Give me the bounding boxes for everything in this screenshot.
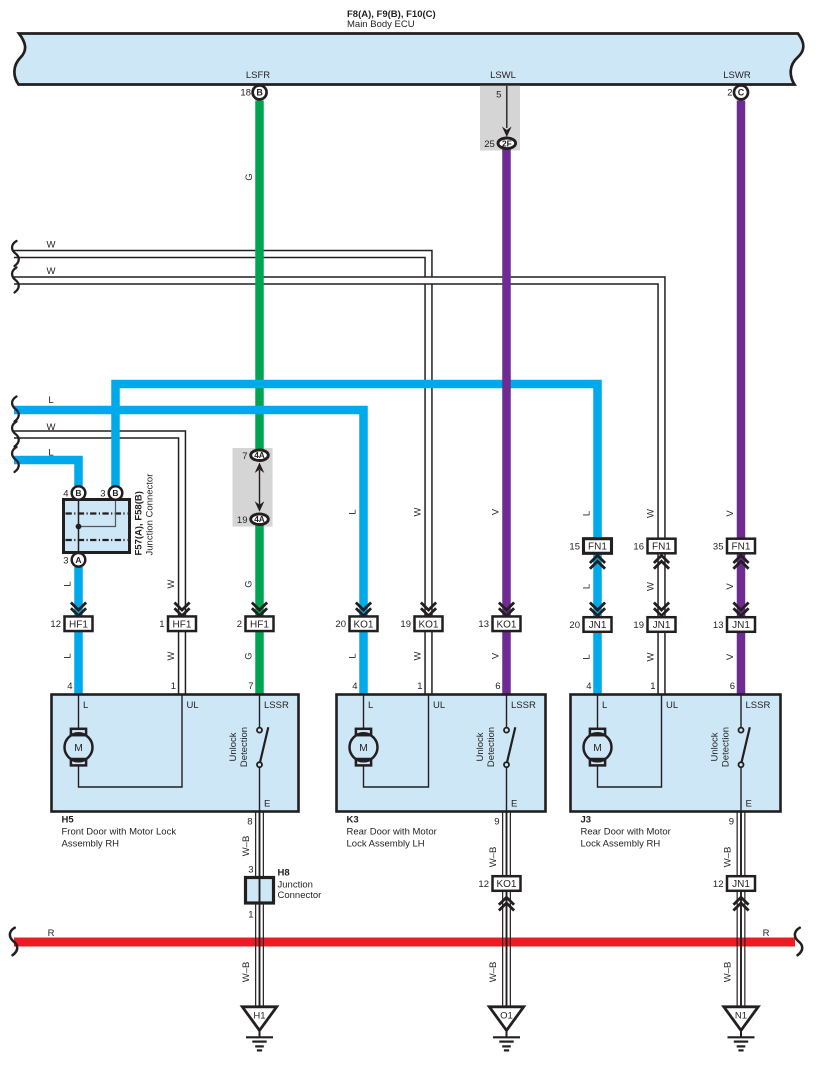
- svg-text:E: E: [511, 799, 517, 810]
- svg-text:9: 9: [729, 817, 734, 828]
- svg-text:3: 3: [63, 555, 68, 566]
- svg-text:4A: 4A: [254, 514, 265, 524]
- svg-text:20: 20: [335, 619, 346, 630]
- svg-text:3: 3: [248, 865, 253, 876]
- svg-text:R: R: [48, 928, 55, 939]
- svg-text:W: W: [166, 579, 177, 588]
- svg-text:F57(A), F58(B): F57(A), F58(B): [134, 491, 145, 555]
- svg-text:V: V: [491, 652, 502, 659]
- svg-text:M: M: [359, 743, 368, 754]
- svg-text:L: L: [63, 653, 74, 658]
- svg-text:19: 19: [633, 620, 644, 631]
- svg-text:O1: O1: [500, 1011, 513, 1022]
- svg-text:E: E: [746, 799, 752, 810]
- svg-text:Detection: Detection: [486, 727, 497, 767]
- svg-text:9: 9: [494, 817, 499, 828]
- svg-text:2: 2: [237, 619, 242, 630]
- svg-text:FN1: FN1: [652, 542, 671, 553]
- svg-text:Unlock: Unlock: [710, 732, 721, 761]
- svg-text:UL: UL: [433, 700, 445, 711]
- svg-text:KO1: KO1: [496, 879, 516, 890]
- svg-text:L: L: [48, 395, 53, 406]
- svg-text:C: C: [738, 88, 745, 98]
- svg-text:W: W: [413, 507, 424, 516]
- svg-text:UL: UL: [666, 700, 678, 711]
- svg-text:H5: H5: [62, 815, 75, 826]
- svg-text:L: L: [83, 700, 88, 711]
- svg-text:15: 15: [569, 541, 580, 552]
- svg-text:V: V: [725, 510, 736, 517]
- svg-text:Main Body ECU: Main Body ECU: [347, 19, 415, 30]
- svg-text:W–B: W–B: [488, 962, 499, 983]
- svg-text:L: L: [63, 581, 74, 586]
- svg-text:Assembly RH: Assembly RH: [62, 839, 120, 850]
- svg-text:Lock Assembly RH: Lock Assembly RH: [581, 839, 661, 850]
- svg-text:A: A: [75, 555, 81, 565]
- svg-text:Front Door with Motor Lock: Front Door with Motor Lock: [62, 827, 177, 838]
- svg-text:Junction: Junction: [278, 880, 313, 891]
- svg-text:W–B: W–B: [488, 847, 499, 868]
- svg-text:HF1: HF1: [69, 619, 88, 630]
- svg-text:7: 7: [248, 681, 253, 692]
- svg-text:L: L: [582, 584, 593, 589]
- svg-text:19: 19: [237, 515, 248, 526]
- svg-text:W: W: [47, 422, 56, 433]
- svg-text:L: L: [48, 448, 53, 459]
- svg-text:1: 1: [171, 681, 176, 692]
- svg-text:FN1: FN1: [588, 542, 607, 553]
- svg-text:JN1: JN1: [732, 620, 750, 631]
- svg-text:H1: H1: [253, 1011, 265, 1022]
- svg-text:W–B: W–B: [241, 836, 252, 857]
- svg-text:L: L: [582, 654, 593, 659]
- svg-text:1: 1: [417, 681, 422, 692]
- svg-text:KO1: KO1: [353, 619, 373, 630]
- svg-text:W: W: [166, 651, 177, 660]
- svg-text:HF1: HF1: [250, 619, 269, 630]
- svg-text:V: V: [725, 653, 736, 660]
- svg-text:JN1: JN1: [732, 879, 750, 890]
- svg-text:W–B: W–B: [241, 962, 252, 983]
- svg-text:LSFR: LSFR: [246, 70, 270, 81]
- svg-text:20: 20: [569, 620, 580, 631]
- svg-text:M: M: [593, 743, 602, 754]
- svg-text:8: 8: [247, 817, 252, 828]
- svg-text:G: G: [244, 652, 255, 659]
- svg-text:7: 7: [242, 451, 247, 462]
- svg-text:W–B: W–B: [723, 847, 734, 868]
- svg-text:W: W: [413, 651, 424, 660]
- svg-text:Rear Door with Motor: Rear Door with Motor: [581, 827, 671, 838]
- svg-text:Lock Assembly LH: Lock Assembly LH: [347, 839, 425, 850]
- svg-text:Rear Door with Motor: Rear Door with Motor: [347, 827, 437, 838]
- svg-text:LSWL: LSWL: [490, 70, 516, 81]
- svg-text:V: V: [491, 508, 502, 515]
- svg-text:W: W: [646, 652, 657, 661]
- svg-text:6: 6: [495, 681, 500, 692]
- svg-text:K3: K3: [347, 815, 359, 826]
- svg-text:G: G: [244, 173, 255, 180]
- svg-text:1: 1: [650, 681, 655, 692]
- svg-text:JN1: JN1: [653, 620, 671, 631]
- svg-text:13: 13: [713, 620, 724, 631]
- svg-text:L: L: [348, 653, 359, 658]
- svg-text:Junction Connector: Junction Connector: [145, 474, 156, 556]
- svg-text:4A: 4A: [254, 450, 265, 460]
- svg-text:JN1: JN1: [589, 620, 607, 631]
- svg-text:Unlock: Unlock: [228, 732, 239, 761]
- svg-text:4: 4: [352, 681, 357, 692]
- svg-text:KO1: KO1: [496, 619, 516, 630]
- svg-text:Unlock: Unlock: [475, 732, 486, 761]
- svg-text:W: W: [646, 509, 657, 518]
- svg-text:Connector: Connector: [278, 890, 322, 901]
- svg-text:1: 1: [248, 910, 253, 921]
- svg-text:19: 19: [400, 619, 411, 630]
- svg-text:LSSR: LSSR: [511, 700, 536, 711]
- svg-text:13: 13: [478, 619, 489, 630]
- svg-text:W: W: [646, 582, 657, 591]
- svg-text:R: R: [763, 928, 770, 939]
- svg-text:2: 2: [727, 88, 732, 99]
- svg-text:35: 35: [713, 541, 724, 552]
- svg-text:V: V: [725, 583, 736, 590]
- svg-text:5: 5: [496, 90, 501, 101]
- svg-text:L: L: [348, 509, 359, 514]
- svg-text:LSSR: LSSR: [746, 700, 771, 711]
- svg-text:L: L: [368, 700, 373, 711]
- svg-text:1: 1: [159, 619, 164, 630]
- svg-text:4: 4: [63, 489, 68, 500]
- svg-text:B: B: [75, 488, 81, 498]
- svg-text:16: 16: [633, 541, 644, 552]
- svg-text:KO1: KO1: [418, 619, 438, 630]
- svg-text:W–B: W–B: [723, 962, 734, 983]
- svg-text:M: M: [74, 743, 83, 754]
- svg-text:W: W: [47, 266, 56, 277]
- svg-text:2F: 2F: [502, 138, 512, 148]
- svg-text:25: 25: [484, 139, 495, 150]
- svg-text:UL: UL: [187, 700, 199, 711]
- svg-text:Detection: Detection: [239, 727, 250, 767]
- svg-text:LSSR: LSSR: [264, 700, 289, 711]
- svg-text:B: B: [256, 88, 263, 98]
- svg-text:4: 4: [586, 681, 591, 692]
- svg-text:J3: J3: [581, 815, 592, 826]
- svg-text:FN1: FN1: [732, 542, 751, 553]
- svg-text:H8: H8: [278, 868, 290, 879]
- svg-text:L: L: [582, 511, 593, 516]
- svg-text:12: 12: [713, 879, 724, 890]
- svg-text:3: 3: [100, 489, 105, 500]
- svg-text:18: 18: [240, 88, 251, 99]
- svg-text:E: E: [264, 799, 270, 810]
- svg-text:4: 4: [67, 681, 72, 692]
- svg-text:12: 12: [478, 879, 489, 890]
- svg-text:N1: N1: [735, 1011, 747, 1022]
- svg-text:LSWR: LSWR: [723, 70, 751, 81]
- svg-text:HF1: HF1: [173, 619, 192, 630]
- svg-text:12: 12: [50, 619, 61, 630]
- svg-text:6: 6: [730, 681, 735, 692]
- svg-text:W: W: [47, 240, 56, 251]
- svg-text:L: L: [602, 700, 607, 711]
- svg-text:G: G: [244, 580, 255, 587]
- svg-text:B: B: [112, 488, 118, 498]
- svg-text:Detection: Detection: [721, 727, 732, 767]
